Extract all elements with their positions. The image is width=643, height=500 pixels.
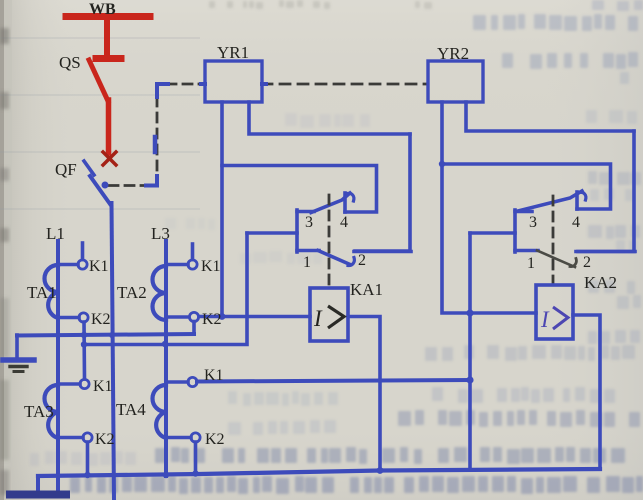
TA4 K1 tap + terminal xyxy=(166,377,197,386)
TA2 K2 tap + terminal xyxy=(166,312,199,334)
wire into KA2 contact 3 xyxy=(470,231,515,235)
TA4 K2 tap + terminal xyxy=(166,433,200,473)
wire YR2 left lead down xyxy=(442,102,470,313)
svg-text:YR1: YR1 xyxy=(217,43,249,62)
CT TA3 winding xyxy=(44,385,58,438)
svg-text:2: 2 xyxy=(358,252,366,269)
CT TA2 winding xyxy=(153,266,167,320)
svg-text:1: 1 xyxy=(303,254,311,271)
bus WB (red) xyxy=(66,17,150,57)
svg-text:4: 4 xyxy=(340,214,348,231)
YR1 left pin stub xyxy=(201,82,205,86)
svg-text:TA2: TA2 xyxy=(117,283,147,302)
trip coil YR1 xyxy=(205,61,262,102)
contact KA2 3-4 moving arm xyxy=(516,191,582,212)
TA1 K1 tap + terminal xyxy=(58,243,87,269)
contact KA2 3-4 fixed hook terminal 4 xyxy=(577,192,586,209)
TA2 K1 tap + terminal xyxy=(166,244,197,269)
mechanical link dashes KA2 xyxy=(552,196,555,283)
svg-text:QS: QS xyxy=(59,53,81,72)
svg-text:1: 1 xyxy=(527,255,535,272)
linkage dashed QF to trip coils xyxy=(109,84,428,186)
svg-text:K2: K2 xyxy=(205,431,225,448)
TA3 K2 tap + terminal xyxy=(58,433,92,475)
svg-text:WB: WB xyxy=(89,1,116,18)
svg-text:K1: K1 xyxy=(204,367,224,384)
ground xyxy=(3,335,34,372)
mechanical link dashes KA1 xyxy=(328,195,331,286)
wire KA2 contact 2 to right xyxy=(576,250,635,254)
TA3 K1 tap + terminal xyxy=(58,379,89,388)
YR1 right pin stub xyxy=(262,82,266,86)
svg-text:I: I xyxy=(313,306,323,331)
svg-text:K1: K1 xyxy=(89,258,109,275)
svg-text:K1: K1 xyxy=(93,378,113,395)
wire right branch down to contact 2 xyxy=(355,134,410,251)
linkage corner pieces (blue) xyxy=(102,84,169,189)
wire upper branch to KA2 contact 4 xyxy=(442,164,611,209)
wire into KA2 coil xyxy=(470,311,536,315)
svg-text:3: 3 xyxy=(305,214,313,231)
current relay KA1 coil box xyxy=(310,288,348,341)
svg-text:QF: QF xyxy=(55,160,77,179)
contact KA1 3-4 moving arm xyxy=(311,193,350,213)
svg-text:KA2: KA2 xyxy=(584,273,617,292)
svg-text:2: 2 xyxy=(583,254,591,271)
wire upper branch to contact 4 xyxy=(222,166,377,213)
wire YR1 right lead xyxy=(249,102,410,134)
breaker QF xyxy=(84,161,110,204)
wire K1 row TA4 to KA2 branch xyxy=(197,380,470,382)
node 3 vertical + stubs xyxy=(297,210,319,252)
KA2 node 3 vertical + stubs xyxy=(515,210,538,252)
svg-text:K2: K2 xyxy=(202,311,222,328)
svg-text:L3: L3 xyxy=(151,224,170,243)
wire YR1 left lead down to relay row xyxy=(220,102,224,316)
svg-text:YR2: YR2 xyxy=(437,44,469,63)
wire L2 feeder vertical xyxy=(112,203,115,500)
wire bottom row xyxy=(38,469,600,476)
contact KA1 1-2 hook terminal 2 xyxy=(348,258,354,266)
svg-text:K2: K2 xyxy=(95,431,115,448)
wire KA2 coil out right and down xyxy=(573,315,600,469)
current relay KA2 coil box xyxy=(536,285,573,339)
wire TA2-K2 to KA1 coil xyxy=(199,315,310,319)
svg-text:K2: K2 xyxy=(91,311,111,328)
svg-text:TA1: TA1 xyxy=(27,283,57,302)
svg-text:3: 3 xyxy=(529,214,537,231)
phase line L3 xyxy=(164,241,168,476)
wire KA1 coil out right, down to K1 row and bottom row xyxy=(348,317,380,472)
svg-text:4: 4 xyxy=(572,214,580,231)
QS-QF linkage cross mark xyxy=(103,152,116,165)
CT TA1 winding xyxy=(44,265,58,318)
TA1 K2 tap + terminal xyxy=(58,313,88,322)
bleed-through layer xyxy=(0,38,200,209)
svg-text:KA1: KA1 xyxy=(350,280,383,299)
wire H2 return to contact circuit xyxy=(83,233,247,345)
wire into contact 3 xyxy=(247,231,297,235)
CT TA4 winding xyxy=(153,385,167,438)
wire bottom row left drop xyxy=(36,476,40,492)
svg-text:K1: K1 xyxy=(201,258,221,275)
wire contact 2 to right xyxy=(354,250,411,254)
contact KA1 3-4 fixed hook terminal 4 xyxy=(345,193,354,212)
ground wire H1 xyxy=(17,334,194,336)
trip coil YR2 xyxy=(428,61,483,102)
contact KA1 1-2 moving arm xyxy=(318,251,349,265)
wire right branch down to KA2 contact 2 xyxy=(578,131,634,252)
contact KA2 1-2 hook terminal 2 xyxy=(570,259,576,267)
wire YR2 right lead xyxy=(466,102,634,131)
svg-text:TA4: TA4 xyxy=(116,400,146,419)
svg-text:I: I xyxy=(540,307,550,332)
wire KA2 branch vertical xyxy=(468,233,472,468)
svg-text:TA3: TA3 xyxy=(24,402,54,421)
wire TA1-K2 down to TA3-K1 xyxy=(82,322,86,379)
phase line L1 xyxy=(56,241,60,490)
disconnector QS (red) xyxy=(89,59,121,154)
svg-text:L1: L1 xyxy=(46,224,65,243)
bus bottom xyxy=(10,491,66,499)
contact KA2 1-2 moving arm xyxy=(537,251,575,268)
